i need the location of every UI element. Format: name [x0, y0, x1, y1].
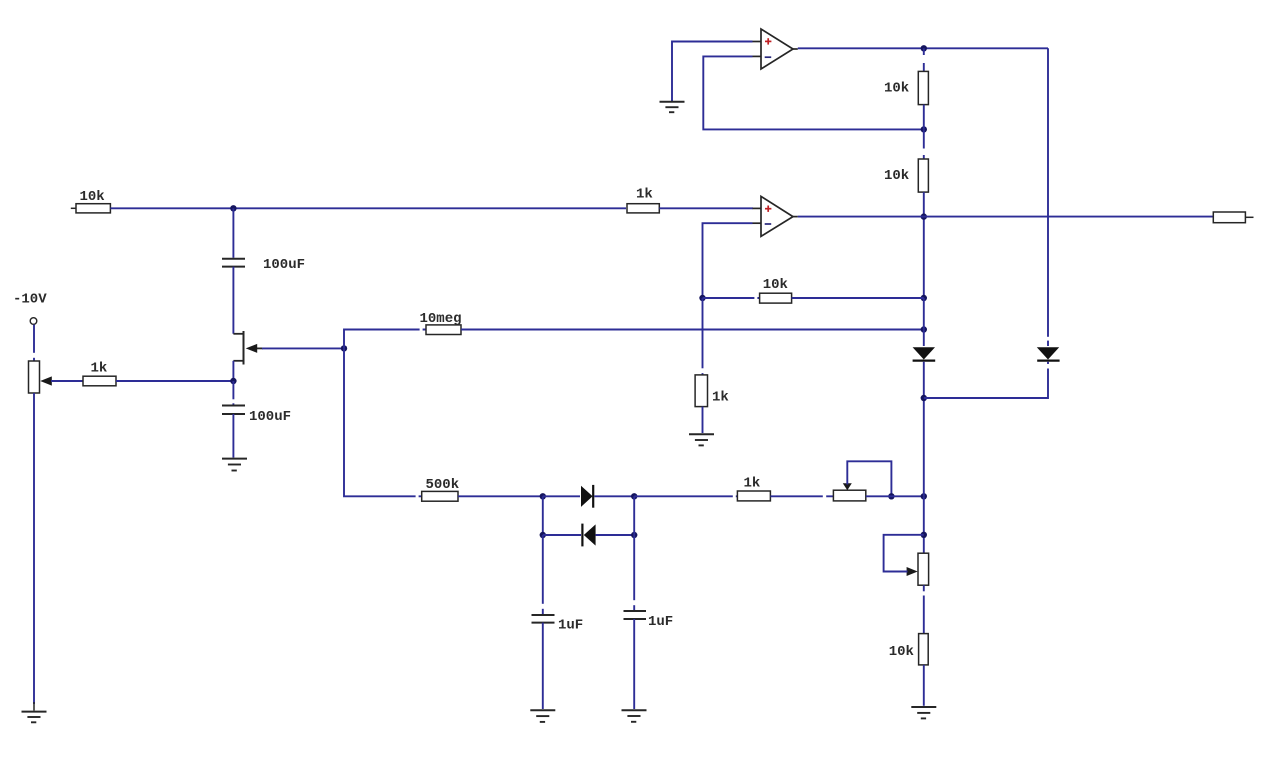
wire [633, 619, 635, 709]
svg-text:500k: 500k [426, 477, 460, 493]
wire (feedback row) [703, 297, 760, 299]
U2 minus marker [765, 223, 772, 225]
output stub [1245, 216, 1253, 218]
wire [866, 495, 924, 497]
svg-text:10k: 10k [889, 644, 914, 660]
U1 plus marker [765, 38, 771, 44]
junction node [631, 532, 637, 538]
diode D3 (ladder, down) [913, 347, 935, 359]
ground (right 1uF) [622, 710, 647, 722]
diode D2 (reverse) [581, 524, 583, 547]
wire [923, 129, 925, 159]
wire [232, 361, 234, 381]
wire [458, 495, 543, 497]
wire [923, 585, 925, 633]
resistor 1k (left) [83, 376, 116, 386]
resistor (output series) [1213, 212, 1245, 223]
capacitor 1uF (right) [624, 611, 647, 619]
wire [923, 48, 925, 71]
junction node [888, 493, 894, 499]
wire [923, 362, 925, 497]
capacitor 1uF (left) [532, 615, 555, 623]
wire [116, 380, 233, 382]
capacitor 100uF (lower) [222, 406, 245, 415]
resistor 1k (middle row) [737, 491, 770, 501]
U2 plus marker [765, 206, 771, 212]
resistor 500k [422, 491, 458, 501]
junction node [921, 295, 927, 301]
ground (left 1uF) [530, 710, 555, 722]
diode D1 (forward) [581, 486, 593, 507]
junction node [699, 295, 705, 301]
wire (gate to node) [262, 347, 344, 349]
wire [542, 535, 544, 614]
transistor Q1 gate arrow [246, 344, 258, 353]
wire [461, 329, 924, 331]
ground (left rail) [22, 712, 47, 723]
potentiometer body (horizontal trimmer) [833, 490, 865, 501]
wire [110, 207, 626, 209]
terminal -10V [30, 318, 37, 325]
svg-text:10k: 10k [80, 189, 105, 205]
junction node [921, 326, 927, 332]
svg-text:-10V: -10V [13, 292, 47, 308]
ground (bypass caps) [222, 459, 247, 471]
op-amp U1 [753, 29, 798, 69]
junction node [921, 126, 927, 132]
wire (U2 output) [798, 216, 1214, 218]
junction node [921, 493, 927, 499]
wire [923, 496, 925, 553]
wire [1047, 48, 1049, 346]
wire [33, 325, 35, 361]
wire (U1 output) [798, 47, 1048, 49]
ground (U2 divider) [689, 434, 714, 445]
wire [596, 534, 635, 536]
resistor 10k (feedback) [760, 293, 792, 303]
wire [792, 297, 924, 299]
transistor Q1 (JFET) [233, 331, 263, 365]
junction node [921, 532, 927, 538]
resistor 10meg [426, 325, 461, 335]
resistor 10k (bottom) [919, 634, 929, 665]
wire [344, 348, 422, 496]
wire [702, 298, 704, 375]
input stub [71, 207, 76, 209]
svg-text:1k: 1k [712, 389, 729, 405]
svg-text:100uF: 100uF [249, 409, 291, 425]
junction node [230, 378, 236, 384]
svg-text:1uF: 1uF [558, 618, 583, 634]
junction node [540, 493, 546, 499]
U1 minus marker [765, 56, 772, 58]
wire [232, 267, 234, 334]
svg-text:10meg: 10meg [420, 311, 462, 327]
wire [659, 207, 753, 209]
wire [923, 192, 925, 298]
pin gaps [33, 55, 1050, 609]
wire [51, 380, 83, 382]
ground (U1 +) [660, 102, 685, 112]
wire [702, 407, 704, 433]
wire (wiper loop) [884, 535, 924, 572]
potentiometer wiper arrow (horizontal trimmer) [843, 483, 852, 490]
svg-text:100uF: 100uF [263, 257, 305, 273]
wire [633, 496, 635, 610]
svg-text:1k: 1k [744, 475, 761, 491]
junction node [921, 45, 927, 51]
svg-text:10k: 10k [884, 168, 909, 184]
wire [594, 495, 634, 497]
wire [770, 495, 833, 497]
diode D4 (right, down) [1037, 347, 1059, 359]
svg-text:10k: 10k [884, 81, 909, 97]
wire [634, 495, 737, 497]
capacitor 100uF (upper) [222, 259, 245, 267]
wire [923, 298, 925, 346]
wire (U2 feedback) [703, 223, 753, 298]
wire [542, 496, 544, 535]
wire [543, 534, 581, 536]
svg-text:1uF: 1uF [648, 614, 673, 630]
ground (main ladder) [911, 707, 936, 718]
wire [232, 208, 234, 257]
resistor 10k (R1 ladder) [918, 71, 928, 104]
wire (U1 feedback) [703, 56, 924, 129]
junction node [540, 532, 546, 538]
svg-text:1k: 1k [91, 361, 108, 377]
op-amp U2 [753, 196, 798, 236]
potentiometer body (vertical trimmer) [918, 553, 929, 585]
wire [924, 362, 1048, 398]
junction node [230, 205, 236, 211]
wire (U1 + input to ground) [672, 42, 753, 102]
wire [543, 495, 580, 497]
svg-text:1k: 1k [636, 187, 653, 203]
wire [923, 105, 925, 130]
junction node [341, 345, 347, 351]
resistor 10k (R2 ladder) [918, 159, 928, 192]
potentiometer body (left bias pot) [29, 361, 40, 393]
resistor 10k (input) [76, 204, 110, 213]
resistor 1k (series to U2 +) [627, 204, 659, 213]
junction node [921, 213, 927, 219]
wire [923, 665, 925, 706]
resistor 1k (to ground) [695, 375, 707, 407]
wire [344, 330, 426, 349]
svg-text:10k: 10k [763, 277, 788, 293]
junction node [631, 493, 637, 499]
wire (wiper loop) [847, 461, 891, 496]
wire [232, 414, 234, 458]
wire [33, 393, 35, 704]
wire [542, 623, 544, 709]
junction node [921, 395, 927, 401]
potentiometer wiper arrow (vertical trimmer) [907, 567, 918, 576]
wire [232, 381, 234, 405]
potentiometer wiper arrow (left bias pot) [40, 376, 52, 385]
